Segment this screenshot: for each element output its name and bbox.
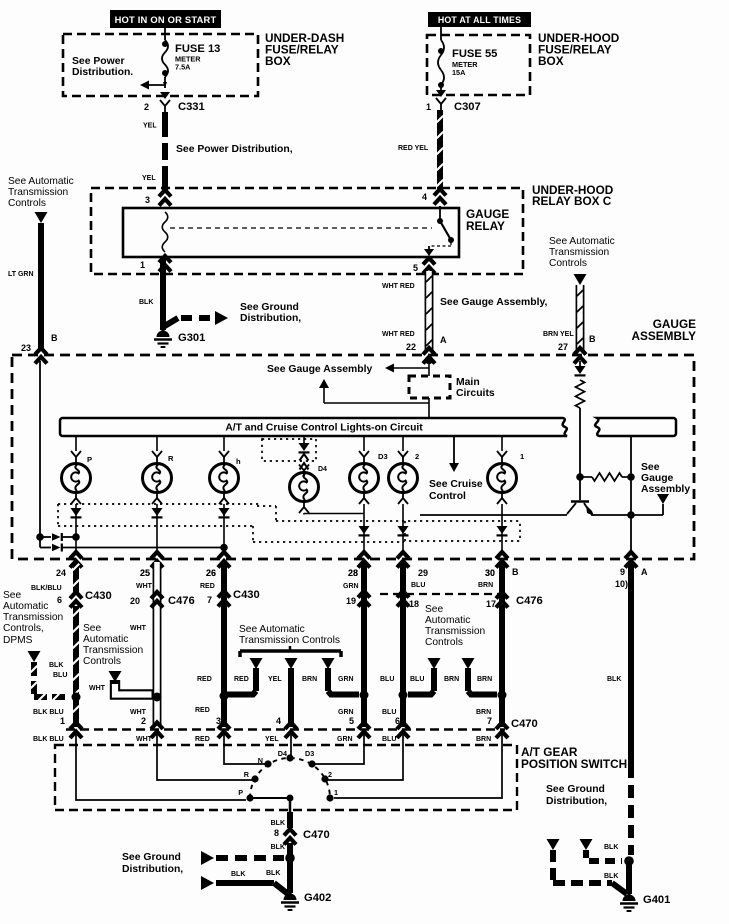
arrow to power distribution	[140, 81, 167, 90]
svg-text:BLK: BLK	[607, 676, 621, 683]
diode D 27	[575, 366, 586, 375]
wire bar to lamp R	[152, 436, 162, 463]
connector C430 pin7	[207, 589, 260, 607]
svg-text:GRN: GRN	[337, 736, 353, 743]
pin 24 gauge assembly	[56, 552, 82, 578]
wire BRN YEL vertical	[543, 285, 584, 352]
svg-text:h: h	[236, 457, 241, 466]
diode under lamp P	[71, 508, 82, 517]
svg-text:1: 1	[140, 260, 145, 270]
wire 9 interior	[630, 515, 632, 553]
svg-text:HOT AT ALL TIMES: HOT AT ALL TIMES	[438, 15, 521, 25]
wire to lamp D4	[299, 465, 309, 477]
svg-text:BLK: BLK	[266, 870, 280, 877]
svg-text:See: See	[3, 590, 21, 601]
svg-text:Main: Main	[456, 377, 480, 388]
svg-text:BLU: BLU	[380, 676, 394, 683]
fuse F13 METER 7.5A	[162, 40, 168, 88]
svg-text:18: 18	[409, 599, 419, 609]
wire switch common	[289, 800, 292, 812]
svg-text:RED: RED	[197, 676, 212, 683]
svg-text:WHT: WHT	[130, 709, 147, 716]
svg-text:Distribution,: Distribution,	[546, 796, 607, 807]
svg-text:N: N	[258, 756, 263, 765]
ref arrow gnd a	[547, 839, 560, 850]
svg-text:Control: Control	[429, 491, 466, 502]
svg-text:Automatic: Automatic	[3, 601, 48, 612]
svg-text:5: 5	[349, 716, 354, 726]
wire 30 BRN	[478, 562, 502, 727]
pin 1 C307	[426, 102, 431, 112]
svg-text:26: 26	[206, 568, 216, 578]
connector C307	[436, 90, 481, 113]
connector C470 pin1	[70, 723, 82, 739]
pin 1 gauge relay	[140, 256, 171, 272]
label GAUGE RELAY	[466, 207, 509, 233]
ref arrow BRN2	[462, 658, 475, 669]
note See Gauge Assembly interior	[267, 364, 373, 375]
svg-text:1: 1	[426, 102, 431, 112]
pin 3 gauge relay	[145, 190, 171, 206]
ref arrow WHT branch	[109, 671, 122, 682]
svg-text:Transmission: Transmission	[83, 645, 143, 656]
svg-text:BLK: BLK	[271, 820, 285, 827]
svg-text:FUSE 55: FUSE 55	[452, 48, 497, 60]
node resistor right	[627, 473, 635, 481]
svg-text:2: 2	[144, 102, 149, 112]
svg-text:Transmission: Transmission	[3, 612, 63, 623]
connector C470 pin7	[496, 718, 538, 738]
dotted line D4 drop	[257, 506, 520, 521]
svg-text:BLK: BLK	[604, 873, 618, 880]
wire route 25 to R	[157, 733, 252, 780]
wire route 29 to 2	[328, 733, 403, 780]
ref arrow BRN YEL	[574, 274, 587, 285]
lamp R	[143, 454, 175, 493]
svg-text:20: 20	[130, 596, 140, 606]
svg-text:DPMS: DPMS	[3, 635, 33, 646]
labels BLK BLU branch	[49, 662, 67, 679]
svg-text:BLK BLU: BLK BLU	[33, 709, 64, 716]
svg-text:D3: D3	[378, 452, 388, 461]
wire BRN stub	[328, 668, 359, 695]
wire RED YEL vertical	[437, 110, 444, 192]
node G402 junction	[285, 853, 295, 863]
note See Automatic Transmission Controls right	[549, 236, 615, 269]
wire YEL label 2	[142, 175, 156, 182]
svg-text:Gauge: Gauge	[641, 473, 674, 484]
diode lower D3	[359, 526, 370, 535]
ground G301	[154, 330, 205, 347]
diode under lamp R	[152, 508, 163, 517]
wire 26 RED	[200, 562, 224, 727]
svg-text:Distribution,: Distribution,	[240, 313, 301, 324]
pin 27 gauge assembly	[558, 334, 596, 364]
wire 30 label mid	[477, 676, 492, 683]
note See Gauge Assembly right	[641, 462, 690, 495]
wire 25 labels	[130, 583, 153, 716]
svg-text:15A: 15A	[452, 68, 466, 77]
diode branch to P	[40, 533, 80, 541]
svg-text:BOX: BOX	[265, 54, 291, 68]
svg-text:A/T and Cruise Control Lights-: A/T and Cruise Control Lights-on Circuit	[225, 423, 423, 434]
wire route 30 to 1	[334, 733, 502, 798]
svg-text:YEL: YEL	[143, 123, 157, 130]
wire bar to lamp D3	[359, 436, 369, 463]
wire see gauge assembly arrow	[385, 364, 429, 373]
pin 4 gauge relay	[422, 189, 446, 205]
wire see cruise control	[449, 436, 459, 472]
ref arrow BRN	[322, 658, 335, 669]
ref arrow LT GRN	[35, 212, 48, 223]
pin 9 10 gauge assembly	[615, 552, 648, 589]
wire 8 BLK	[271, 812, 290, 828]
svg-text:See Ground: See Ground	[240, 302, 299, 313]
relay coil	[162, 212, 168, 252]
note See ATC center	[239, 624, 340, 646]
wire route 28 to D3	[315, 733, 364, 764]
wire bar to lamp 2	[398, 436, 408, 463]
svg-text:19: 19	[346, 596, 356, 606]
dotted box lower right	[405, 521, 520, 541]
contact P A/T switch	[238, 788, 253, 802]
svg-text:BRN: BRN	[444, 676, 459, 683]
connector pin18	[397, 591, 419, 609]
main circuits box	[409, 376, 450, 398]
ref arrow DPMS branch	[28, 651, 41, 662]
svg-text:WHT: WHT	[136, 583, 153, 590]
svg-text:24: 24	[56, 568, 66, 578]
svg-text:See: See	[83, 623, 101, 634]
wire dashed to ground distribution	[163, 311, 228, 327]
wire YEL vertical	[162, 112, 168, 192]
wire 28 label mid	[338, 676, 354, 683]
note See Ground Distribution left	[240, 302, 301, 324]
wire 27 interior	[579, 408, 581, 500]
wire 27 interior top	[579, 361, 581, 366]
svg-text:R: R	[168, 454, 174, 463]
svg-text:See Gauge Assembly,: See Gauge Assembly,	[440, 297, 548, 308]
wire RED YEL label	[398, 145, 429, 152]
label A/T GEAR POSITION SWITCH	[521, 745, 627, 771]
diode lower 1	[497, 526, 508, 535]
svg-text:BLK: BLK	[604, 844, 618, 851]
svg-text:2: 2	[328, 770, 332, 779]
svg-text:FUSE 13: FUSE 13	[175, 43, 220, 55]
svg-text:BLU: BLU	[411, 582, 425, 589]
svg-text:Transmission: Transmission	[549, 247, 609, 258]
dotted box around diode D4	[262, 439, 316, 461]
gauge assembly bar right segment	[595, 418, 676, 436]
svg-text:BRN YEL: BRN YEL	[543, 331, 574, 338]
svg-text:C307: C307	[454, 101, 481, 113]
contact D4 A/T switch	[278, 749, 294, 762]
svg-text:6: 6	[57, 595, 62, 605]
connector C331	[160, 92, 205, 113]
wire branch to arrow	[319, 379, 429, 403]
node 26 junction	[220, 692, 229, 701]
note See Ground Distribution G401	[546, 784, 607, 807]
wire 24 colors at C470	[33, 709, 65, 743]
resistor R vertical	[576, 380, 585, 408]
svg-text:P: P	[238, 788, 243, 797]
diode under lamp h	[219, 508, 230, 517]
connector pin19	[346, 591, 370, 607]
svg-text:See: See	[641, 462, 660, 473]
wire 8 BLK lower	[271, 843, 290, 893]
wire route 26 to N	[224, 733, 265, 764]
svg-text:BLU: BLU	[382, 736, 396, 743]
wire below lamp 2	[398, 492, 408, 552]
label FUSE 55	[452, 48, 497, 60]
wire DPMS branch	[31, 662, 70, 700]
wire BLK to G301	[139, 257, 163, 330]
wire WHT branch	[89, 680, 153, 695]
svg-text:BLK: BLK	[271, 844, 285, 851]
svg-text:YEL: YEL	[265, 736, 279, 743]
svg-text:3: 3	[145, 195, 150, 205]
svg-text:B: B	[512, 567, 519, 577]
wire below lamp h	[219, 492, 229, 552]
diode lower 2	[398, 526, 409, 535]
power label HOT AT ALL TIMES	[428, 12, 531, 27]
svg-text:See Ground: See Ground	[122, 852, 181, 863]
labels BLK G402	[231, 870, 280, 878]
under-hood relay box C	[91, 188, 523, 274]
wire below lamp D3	[359, 492, 369, 552]
svg-text:Transmission: Transmission	[8, 187, 68, 198]
svg-text:1: 1	[60, 716, 65, 726]
pin 30 gauge assembly	[485, 552, 508, 578]
fuse F55 METER 15A	[438, 40, 444, 90]
lamp h	[210, 457, 242, 493]
bracket ATC	[240, 646, 341, 657]
note See ATC wht	[83, 623, 143, 667]
connector C476 pin20	[130, 592, 195, 608]
svg-text:A: A	[641, 567, 648, 577]
ref arrow BLU	[428, 658, 441, 669]
connector C470 pin4	[265, 716, 297, 743]
svg-text:WHT: WHT	[89, 685, 106, 692]
svg-text:GRN: GRN	[338, 709, 354, 716]
wire 9 to G401	[626, 861, 632, 894]
ref arrow YEL	[285, 658, 298, 669]
label METER 7.5A	[175, 55, 201, 72]
svg-text:10): 10)	[615, 579, 628, 589]
svg-text:D4: D4	[278, 749, 287, 758]
wire bar to lamp h	[219, 436, 229, 463]
svg-text:C430: C430	[85, 590, 112, 602]
A/T and Cruise Control Lights-on Circuit bar	[60, 418, 567, 436]
wire 28 GRN	[343, 562, 364, 727]
wire bar to diode D4	[303, 436, 305, 444]
ref arrow gnd b	[580, 839, 593, 850]
svg-text:See: See	[425, 604, 443, 615]
contact N A/T switch	[258, 756, 272, 768]
pin 22 gauge assembly	[406, 335, 447, 364]
label Main Circuits	[456, 377, 495, 399]
node 28 junction	[360, 691, 369, 700]
connector C470 pin6	[397, 723, 409, 739]
svg-text:BLK BLU: BLK BLU	[33, 736, 64, 743]
svg-text:Controls: Controls	[549, 258, 587, 269]
wire 24 color label	[31, 585, 62, 592]
under-dash fuse/relay box	[63, 34, 258, 96]
svg-text:30: 30	[485, 568, 495, 578]
svg-text:ASSEMBLY: ASSEMBLY	[632, 329, 697, 343]
svg-text:See Power Distribution,: See Power Distribution,	[176, 144, 293, 155]
svg-text:25: 25	[140, 568, 150, 578]
ref arrow see gauge assembly small	[657, 494, 669, 515]
wire BLU stub	[408, 668, 434, 695]
svg-text:1: 1	[334, 788, 338, 797]
svg-text:See Power: See Power	[72, 56, 125, 67]
node resistor left	[576, 473, 584, 481]
svg-text:R: R	[244, 770, 250, 779]
svg-text:BRN: BRN	[478, 582, 493, 589]
connector C470 line	[66, 728, 505, 731]
wire emitter line	[420, 514, 663, 516]
svg-text:BLK: BLK	[49, 662, 63, 669]
lamp 2	[389, 452, 420, 493]
wire D4 to D3 wire	[304, 513, 364, 515]
svg-text:BRN: BRN	[476, 736, 491, 743]
connector D4 feed	[300, 454, 309, 470]
svg-text:RELAY BOX C: RELAY BOX C	[532, 194, 612, 208]
svg-text:See Automatic: See Automatic	[549, 236, 615, 247]
label UNDER-DASH FUSE/RELAY BOX	[265, 31, 344, 68]
ref arrow RED	[250, 658, 263, 669]
under-hood fuse/relay box	[427, 35, 530, 95]
wire 9 BLK dashed	[628, 765, 634, 855]
svg-text:BLU: BLU	[382, 709, 396, 716]
wire bar2 drop	[630, 436, 632, 515]
svg-text:7.5A: 7.5A	[175, 63, 191, 72]
svg-text:P: P	[87, 455, 92, 464]
ground G401	[620, 894, 670, 911]
svg-text:Assembly: Assembly	[641, 484, 690, 495]
wire gnd b	[586, 850, 622, 861]
svg-text:C430: C430	[233, 589, 260, 601]
svg-text:Controls,: Controls,	[3, 623, 44, 634]
svg-text:BRN: BRN	[302, 676, 317, 683]
svg-text:YEL: YEL	[142, 175, 156, 182]
note See Ground Distribution G402	[122, 852, 183, 875]
svg-text:4: 4	[276, 716, 281, 726]
svg-text:C470: C470	[511, 718, 538, 730]
lamp D3	[350, 452, 388, 493]
gauge assembly box	[12, 355, 694, 559]
note See Cruise Control	[429, 479, 483, 502]
svg-text:BLK/BLU: BLK/BLU	[31, 585, 62, 592]
label BLK gnd a	[604, 873, 618, 880]
connector C470 pin2	[136, 716, 163, 743]
wire YEL label	[143, 123, 157, 130]
ground G402	[281, 892, 331, 910]
wire ground distribution 2	[201, 876, 288, 894]
wire BRN2 stub	[444, 668, 497, 695]
svg-text:HOT IN ON OR START: HOT IN ON OR START	[115, 14, 217, 25]
wire 22 drop	[428, 360, 430, 376]
svg-text:WHT: WHT	[130, 625, 147, 632]
svg-text:Circuits: Circuits	[456, 388, 495, 399]
label RED stub	[234, 676, 249, 683]
svg-text:Controls: Controls	[425, 637, 463, 648]
svg-text:B: B	[51, 333, 58, 343]
svg-text:Transmission Controls: Transmission Controls	[239, 635, 340, 646]
wire 29 BLU	[403, 562, 425, 727]
note See ATC DPMS	[3, 590, 63, 646]
connector C470 pin5	[358, 723, 370, 739]
wire YEL stub	[268, 668, 291, 727]
svg-text:LT GRN: LT GRN	[8, 271, 34, 278]
switch arc	[250, 758, 330, 798]
wire below lamp 1	[497, 492, 507, 552]
diode D4 feed	[299, 443, 310, 452]
svg-text:WHT: WHT	[136, 736, 153, 743]
pin 23 gauge assembly	[21, 333, 58, 364]
svg-text:Distribution,: Distribution,	[122, 864, 183, 875]
pin 28 gauge assembly	[348, 552, 370, 578]
svg-text:G402: G402	[304, 892, 331, 904]
contact 2 A/T switch	[321, 770, 332, 783]
wire ground distribution 1	[201, 851, 284, 865]
pin 26 gauge assembly	[206, 552, 230, 578]
svg-text:C331: C331	[178, 101, 205, 113]
wire 24 BLK/BLU lower	[73, 606, 80, 727]
lamp P	[62, 455, 93, 493]
node 30 junction	[498, 691, 507, 700]
svg-text:27: 27	[558, 342, 568, 352]
svg-text:C476: C476	[168, 595, 195, 607]
svg-text:8: 8	[274, 828, 279, 838]
diode branch to h	[40, 544, 228, 552]
svg-text:See Automatic: See Automatic	[8, 176, 74, 187]
svg-text:WHT RED: WHT RED	[382, 331, 415, 338]
node 24 junction	[72, 693, 81, 702]
contact R A/T switch	[244, 770, 259, 783]
svg-text:Controls: Controls	[8, 198, 46, 209]
pin 5 gauge relay	[413, 258, 435, 274]
wire bar to lamp 1	[497, 436, 507, 463]
dashed C476 line	[380, 593, 498, 595]
wire LT GRN vertical	[8, 223, 41, 350]
node 25 junction	[153, 693, 162, 702]
svg-text:C470: C470	[303, 829, 330, 841]
transistor Q1	[567, 502, 594, 517]
svg-text:29: 29	[418, 568, 428, 578]
svg-text:WHT RED: WHT RED	[382, 283, 415, 290]
svg-text:Distribution.: Distribution.	[72, 67, 133, 78]
label BRN stub	[302, 676, 317, 683]
pin 25 gauge assembly	[140, 552, 163, 578]
svg-text:22: 22	[406, 342, 416, 352]
svg-text:B: B	[589, 334, 596, 344]
lamp D4	[290, 466, 328, 502]
svg-text:BLU: BLU	[53, 672, 67, 679]
note See Power Distribution	[72, 56, 133, 78]
pin 8 C470	[274, 828, 330, 845]
svg-text:GRN: GRN	[338, 676, 354, 683]
wire 28 labels C470	[337, 709, 354, 743]
svg-text:17: 17	[486, 599, 496, 609]
svg-text:28: 28	[348, 568, 358, 578]
svg-text:BRN: BRN	[476, 709, 491, 716]
svg-text:BLU: BLU	[410, 676, 424, 683]
svg-text:BLK: BLK	[139, 299, 153, 306]
switch wiper	[253, 795, 294, 802]
wire below lamp D4	[299, 501, 309, 515]
